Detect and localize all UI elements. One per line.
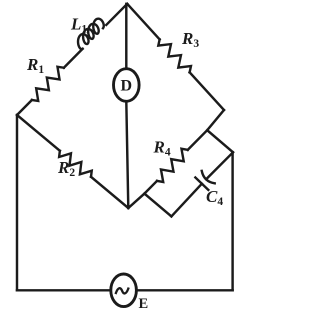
svg-text:L1: L1 (70, 15, 87, 36)
svg-text:R3: R3 (181, 29, 199, 50)
svg-text:R2: R2 (57, 158, 75, 179)
svg-text:R4: R4 (153, 138, 171, 159)
svg-text:E: E (139, 296, 149, 312)
svg-text:R1: R1 (26, 55, 44, 76)
svg-text:D: D (121, 78, 133, 95)
svg-text:C4: C4 (206, 187, 223, 208)
